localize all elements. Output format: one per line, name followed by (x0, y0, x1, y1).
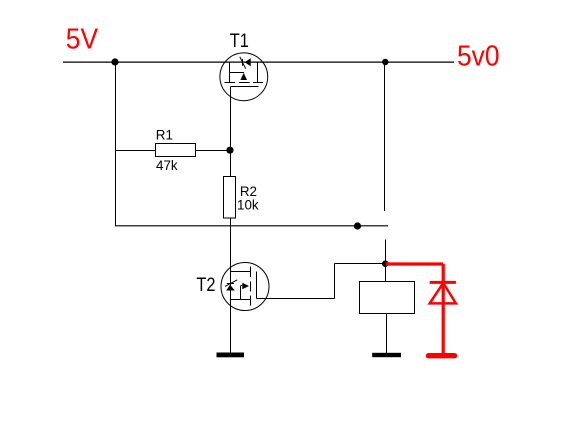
ground T2 source (217, 353, 245, 358)
resistor R1 body (156, 144, 196, 157)
diode D1 cathode bar (430, 281, 456, 284)
svg-text:5v0: 5v0 (457, 39, 500, 71)
svg-text:T2: T2 (196, 274, 215, 296)
wire T2 gate run (257, 264, 386, 299)
wire lower vertical to relay (385, 240, 387, 282)
svg-text:R1: R1 (156, 128, 173, 143)
ground red diode anode (429, 353, 455, 358)
node C junction dot (382, 59, 388, 65)
svg-text:5V: 5V (66, 22, 99, 54)
transistor T2 N-MOSFET (221, 263, 269, 311)
node B junction dot (226, 147, 233, 154)
svg-text:T1: T1 (230, 30, 249, 52)
wire left vertical from node A down (115, 62, 117, 226)
wire right vertical upper from node C (384, 62, 386, 211)
transistor T1 P-MOSFET (220, 53, 268, 101)
resistor R2 body (224, 177, 236, 219)
ground relay (372, 353, 401, 357)
svg-text:R2: R2 (240, 184, 257, 199)
wire gate R2 T2 vertical (230, 87, 232, 354)
diode D1 triangle (430, 283, 456, 304)
wire R1 row (116, 150, 231, 152)
relay K1 coil box (360, 282, 415, 314)
svg-text:10k: 10k (237, 198, 259, 213)
node A junction dot (111, 58, 118, 65)
node D junction dot (354, 222, 361, 229)
svg-text:47k: 47k (156, 158, 178, 173)
wire bottom horizontal (116, 225, 389, 227)
wire top rail 5V to 5v0 (63, 61, 454, 63)
wire red node E to diode (386, 264, 444, 354)
node E junction dot (382, 260, 389, 267)
wire relay bottom (386, 314, 388, 354)
